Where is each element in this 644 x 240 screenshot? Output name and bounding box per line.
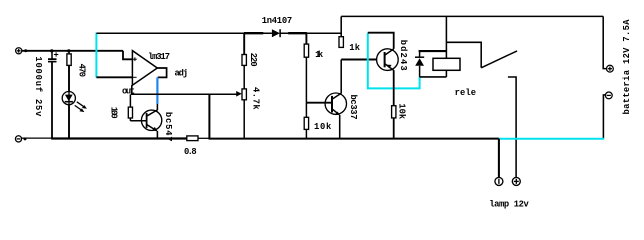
resistor 1k right column — [339, 16, 343, 47]
wire adj jog — [157, 68, 166, 77]
node dot at J1 minus — [24, 137, 27, 140]
svg-text:lm317: lm317 — [148, 52, 170, 62]
relay switch arm — [446, 42, 481, 68]
switch contact — [508, 77, 516, 177]
terminal lamp minus — [495, 177, 503, 185]
svg-text:lamp 12v: lamp 12v — [489, 200, 529, 210]
wire base bc547 — [130, 120, 146, 122]
svg-text:0.8: 0.8 — [184, 147, 197, 157]
wire out pin — [131, 85, 133, 95]
svg-text:batteria 12V 7.5A: batteria 12V 7.5A — [622, 19, 632, 115]
op-amp U1 lm317 triangle — [132, 51, 157, 86]
wire collector jog bd243 — [368, 33, 394, 49]
wire base bd243 — [341, 59, 377, 61]
svg-text:bc547: bc547 — [163, 112, 173, 142]
transistor Q2 bc337 — [325, 60, 346, 139]
resistor 100 — [128, 94, 132, 121]
svg-text:470: 470 — [77, 64, 87, 77]
svg-text:out: out — [122, 87, 135, 97]
svg-text:100: 100 — [108, 107, 118, 119]
wire bottom rail right — [209, 138, 499, 140]
wire relay top thick — [419, 50, 447, 52]
wire top-left rail — [22, 50, 123, 52]
terminal battery plus — [607, 65, 614, 72]
wire battery plus feed — [603, 16, 606, 68]
pot wiper arrow — [236, 91, 242, 97]
diode D2 1n4107 — [272, 29, 280, 37]
terminal battery minus — [605, 92, 612, 99]
svg-text:bc337: bc337 — [348, 95, 358, 120]
resistor 0.8 — [187, 136, 198, 141]
svg-text:10k: 10k — [314, 122, 332, 132]
wire relay feed vertical — [445, 16, 447, 58]
wire base bc337 — [306, 102, 332, 104]
wire top rail right — [341, 15, 603, 17]
svg-text:1000uf 25v: 1000uf 25v — [33, 56, 43, 117]
svg-text:adj: adj — [175, 69, 189, 79]
resistor 10k — [304, 103, 308, 139]
wire bottom rail mid thin — [198, 137, 209, 139]
node dot cap tap — [50, 49, 53, 52]
diode D3 flyback — [415, 51, 424, 77]
resistor 1k left column — [304, 33, 308, 103]
wire cyan net mid — [368, 33, 420, 89]
svg-text:1k: 1k — [315, 50, 324, 60]
plus marker — [133, 57, 137, 61]
wire bottom rail left — [22, 137, 53, 139]
wire blue net adj — [156, 77, 158, 104]
svg-text:220: 220 — [248, 53, 258, 67]
resistor 470 — [67, 51, 71, 139]
svg-text:rele: rele — [455, 88, 476, 98]
node dot resistor tap — [67, 49, 70, 52]
terminal J1 plus — [16, 48, 22, 54]
terminal lamp plus — [512, 177, 520, 185]
svg-text:bd243: bd243 — [398, 40, 408, 71]
wire step to regulator input — [123, 51, 132, 60]
wire cyan net left — [95, 33, 97, 78]
svg-text:10k: 10k — [396, 103, 406, 119]
svg-text:1n4107: 1n4107 — [262, 16, 292, 26]
switch blade — [481, 51, 517, 68]
relay coil K1 — [433, 58, 460, 70]
wire out horizontal — [131, 93, 237, 95]
capacitor C1 1000uf 25v — [48, 51, 58, 139]
wire relay bottom — [420, 76, 447, 78]
wire cyan net bottom — [499, 138, 604, 140]
potentiometer 4.7k — [242, 89, 246, 139]
wire to regulator lower input — [96, 76, 132, 78]
svg-text:1k: 1k — [349, 43, 360, 53]
transistor Q3 bd243 — [377, 49, 399, 139]
LED D1 — [62, 92, 75, 105]
wire top rail 2 — [96, 32, 272, 34]
wire battery minus feed — [603, 95, 605, 139]
transistor Q1 bc547 — [141, 104, 161, 139]
node dot at J1 plus — [24, 49, 27, 52]
resistor 220 column — [242, 33, 246, 89]
terminal J1 minus — [15, 136, 21, 142]
wire column down from out — [208, 94, 210, 139]
wire lamp left — [498, 139, 500, 178]
LED emission arrows — [75, 102, 87, 112]
svg-text:4.7k: 4.7k — [250, 87, 260, 110]
minus marker — [133, 76, 137, 78]
resistor 10k emitter — [392, 106, 396, 118]
